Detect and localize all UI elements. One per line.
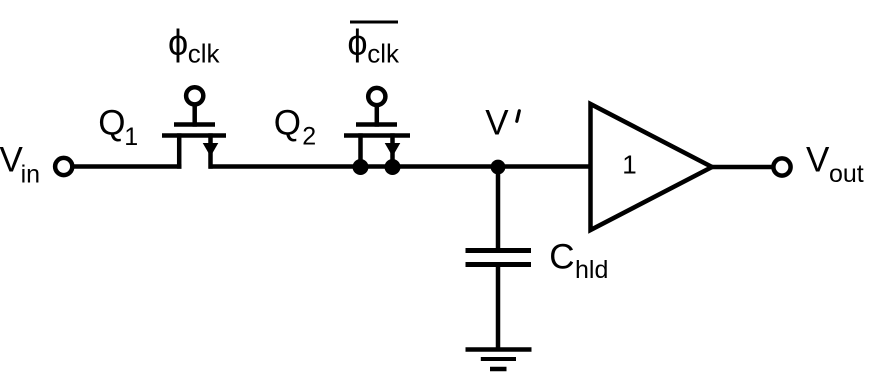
- svg-text:in: in: [21, 161, 40, 189]
- svg-text:1: 1: [622, 150, 636, 180]
- svg-text:clk: clk: [188, 39, 221, 69]
- svg-text:ϕ: ϕ: [347, 22, 367, 63]
- svg-text:V: V: [806, 141, 830, 180]
- svg-text:C: C: [549, 238, 574, 277]
- svg-text:Q: Q: [98, 104, 125, 143]
- svg-text:V: V: [485, 104, 509, 143]
- svg-text:2: 2: [302, 123, 316, 151]
- svg-text:1: 1: [124, 123, 138, 151]
- svg-text:ϕ: ϕ: [168, 22, 188, 63]
- svg-text:out: out: [829, 160, 864, 188]
- svg-text:clk: clk: [367, 39, 400, 69]
- svg-text:hld: hld: [575, 256, 608, 284]
- svg-text:Q: Q: [274, 104, 301, 143]
